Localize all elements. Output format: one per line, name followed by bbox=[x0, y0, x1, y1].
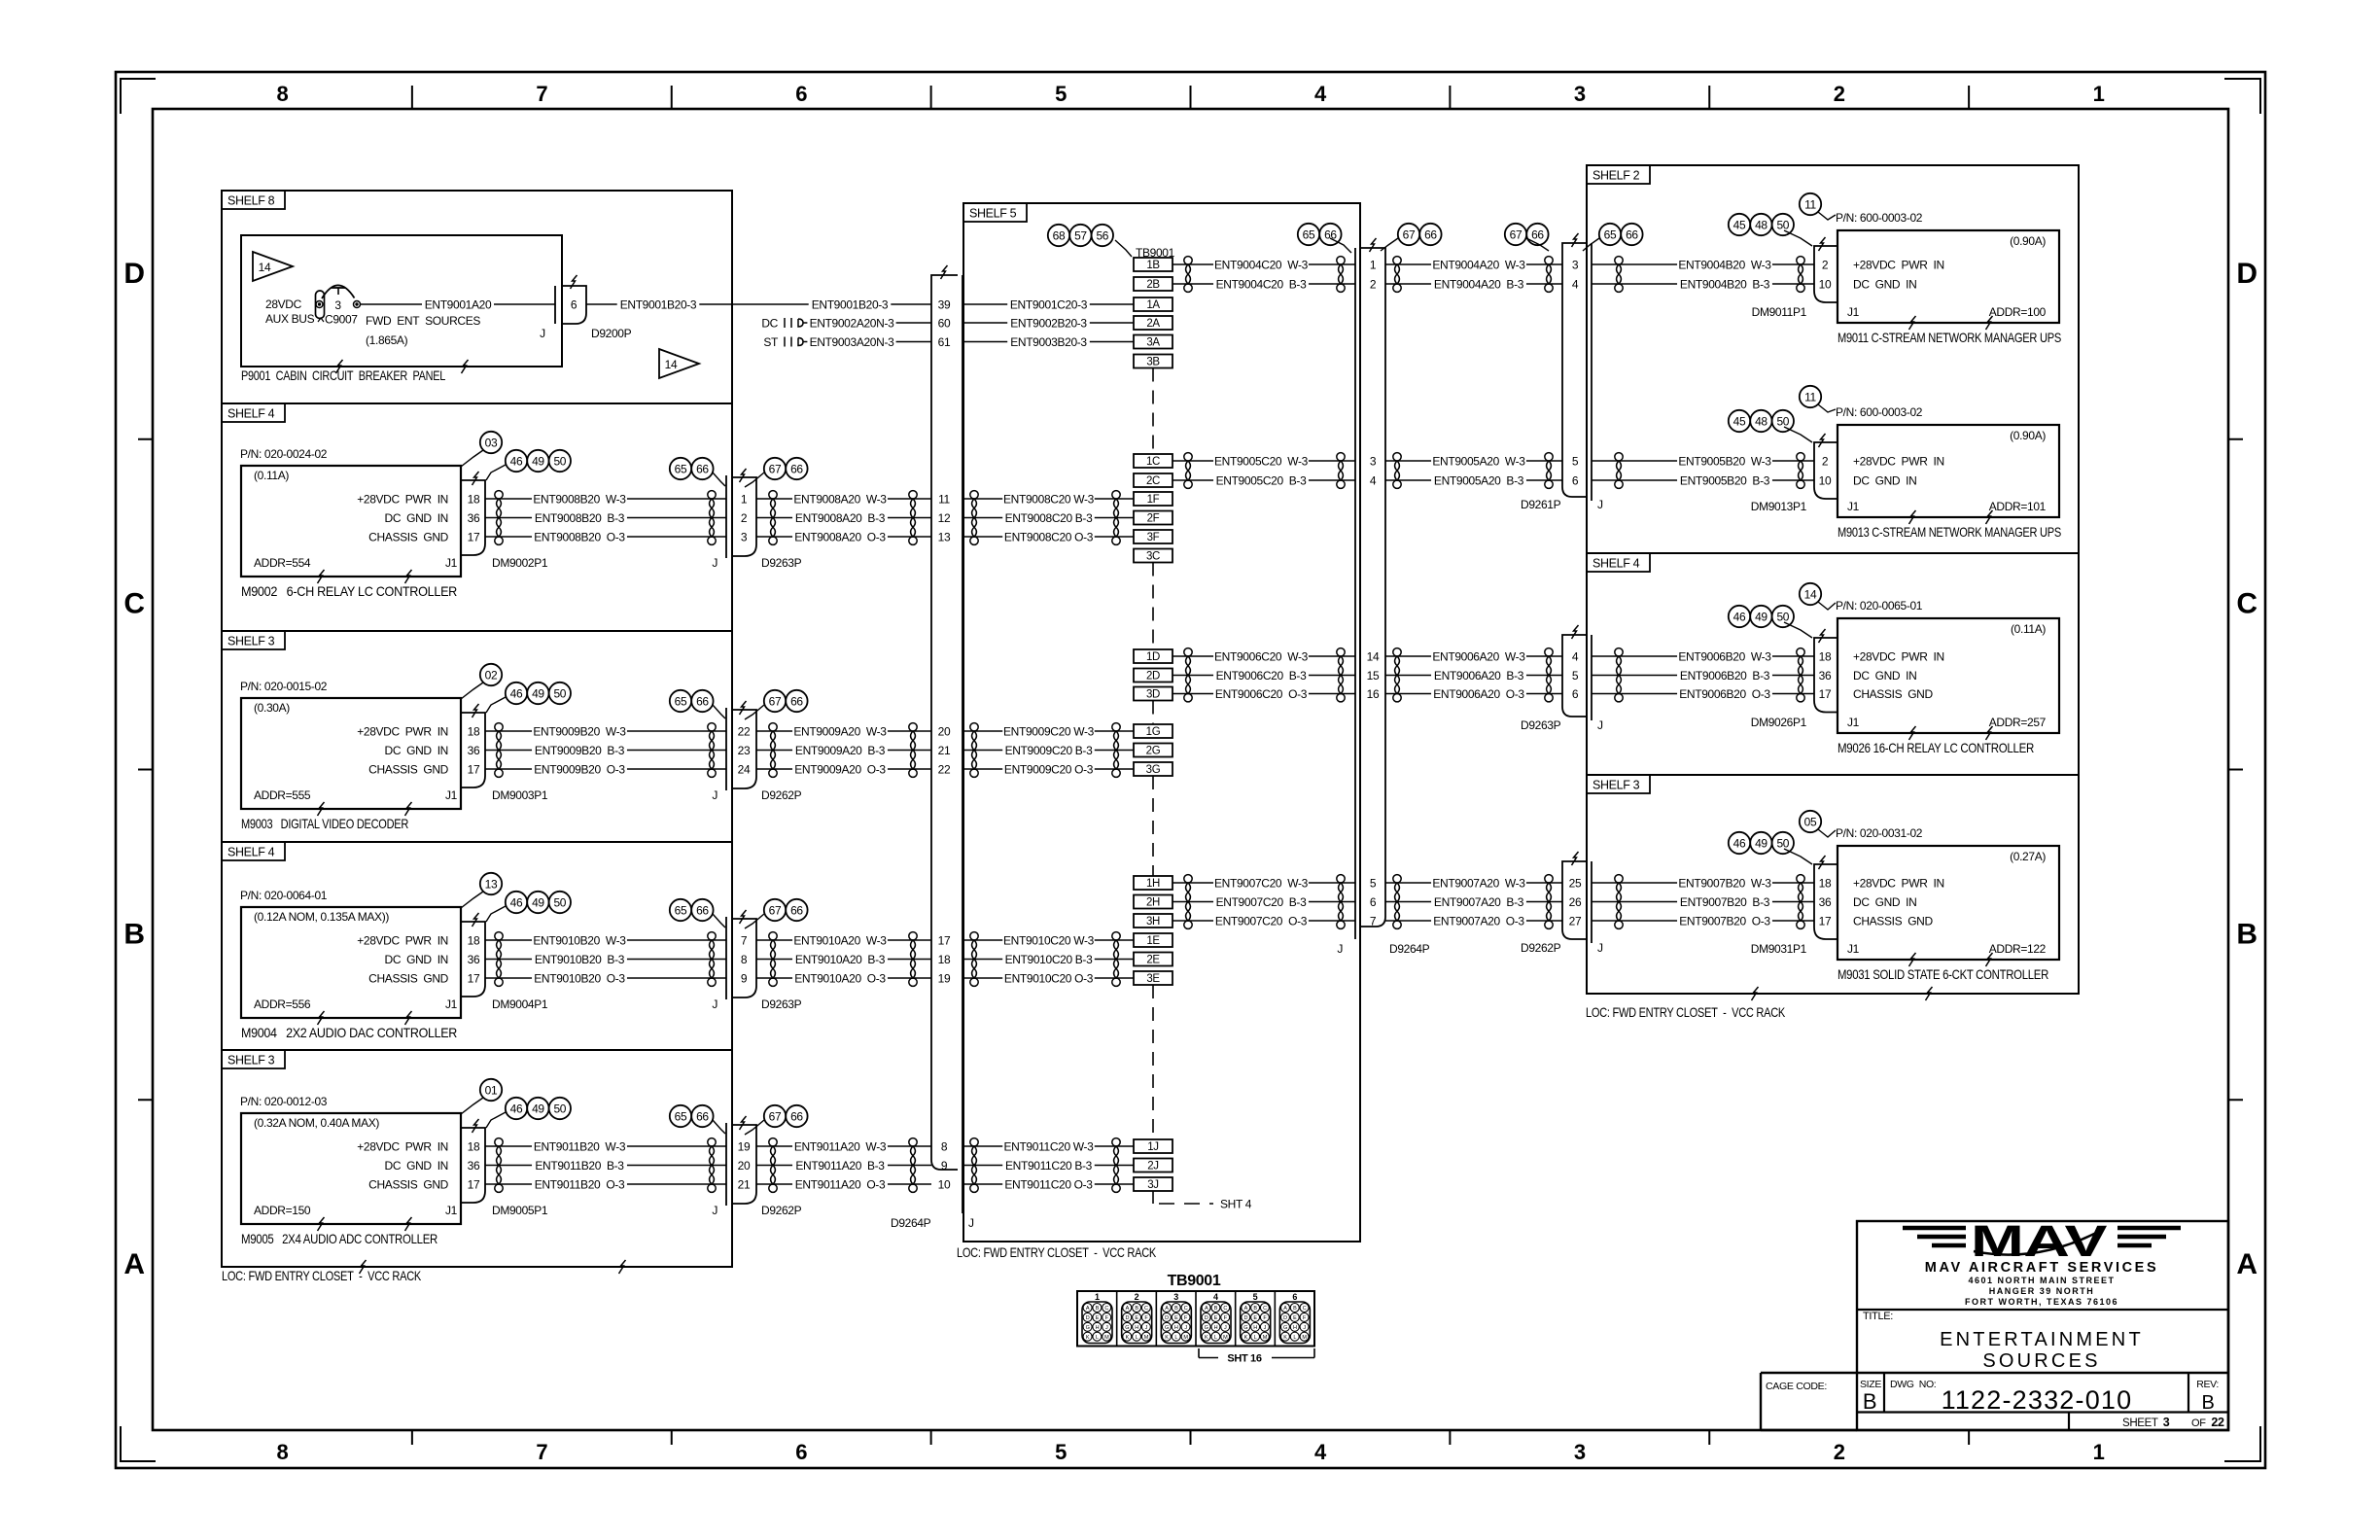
svg-text:11: 11 bbox=[1804, 197, 1816, 211]
svg-text:ADDR=150: ADDR=150 bbox=[254, 1204, 311, 1217]
svg-text:6: 6 bbox=[1370, 895, 1377, 909]
svg-text:39: 39 bbox=[938, 297, 951, 311]
svg-text:DM9005P1: DM9005P1 bbox=[492, 1204, 548, 1217]
svg-text:L: L bbox=[1096, 1335, 1099, 1341]
svg-text:67: 67 bbox=[1510, 227, 1522, 241]
twisted wires at terminal block bbox=[1112, 932, 1120, 987]
location note for shelf 5 rack bbox=[957, 1244, 1157, 1260]
svg-text:ENT9010A20 B-3: ENT9010A20 B-3 bbox=[795, 953, 886, 966]
svg-text:H: H bbox=[1214, 1325, 1218, 1331]
svg-text:17: 17 bbox=[938, 933, 951, 947]
svg-text:J: J bbox=[1597, 498, 1603, 511]
twisted wires inside right shelf bbox=[1615, 648, 1623, 702]
svg-text:8: 8 bbox=[941, 1139, 948, 1153]
svg-text:ENT9006B20 O-3: ENT9006B20 O-3 bbox=[1679, 687, 1770, 701]
svg-text:D: D bbox=[1165, 1315, 1169, 1321]
svg-text:61: 61 bbox=[938, 335, 951, 349]
svg-text:66: 66 bbox=[790, 694, 803, 708]
svg-text:ADDR=122: ADDR=122 bbox=[1989, 942, 2047, 956]
wire ENT9003B20-3 to terminal 3A bbox=[963, 334, 1134, 349]
svg-text:16: 16 bbox=[1367, 687, 1380, 701]
svg-text:2E: 2E bbox=[1146, 955, 1160, 966]
svg-text:ENT9001A20: ENT9001A20 bbox=[425, 297, 492, 311]
module M9013 box bbox=[1836, 405, 2061, 540]
svg-text:65: 65 bbox=[1303, 227, 1315, 241]
svg-text:66: 66 bbox=[696, 903, 709, 917]
shelf box SHELF 8 (P9001 cabin circuit breaker panel shelf) bbox=[222, 191, 732, 403]
svg-text:36: 36 bbox=[468, 511, 480, 525]
svg-text:2F: 2F bbox=[1147, 513, 1160, 525]
module M9026 box bbox=[1836, 599, 2059, 755]
svg-text:ENT9007B20 O-3: ENT9007B20 O-3 bbox=[1679, 914, 1770, 927]
svg-text:5: 5 bbox=[1055, 82, 1067, 106]
svg-text:2H: 2H bbox=[1146, 897, 1160, 909]
svg-text:3E: 3E bbox=[1146, 973, 1160, 985]
svg-text:03: 03 bbox=[485, 436, 498, 449]
svg-text:3D: 3D bbox=[1146, 689, 1160, 701]
svg-text:15: 15 bbox=[1367, 669, 1380, 682]
terminal blocks 1A/2A/3A/3B bbox=[1134, 297, 1172, 368]
wire ENT9010C20 W-3 to terminal 1E bbox=[963, 933, 1134, 948]
connector D9264P pins 14/15/16 bbox=[1367, 649, 1380, 701]
svg-text:1F: 1F bbox=[1147, 494, 1160, 506]
svg-text:A: A bbox=[2236, 1248, 2257, 1280]
svg-text:ENT9006C20 W-3: ENT9006C20 W-3 bbox=[1214, 649, 1309, 663]
connector D9262P plug (pins 25/26/27) bbox=[1521, 852, 1603, 955]
svg-text:49: 49 bbox=[1755, 610, 1767, 623]
svg-text:L: L bbox=[1174, 1335, 1177, 1341]
svg-text:SHELF 4: SHELF 4 bbox=[1592, 557, 1640, 571]
wire ENT9008A20 O-3 bbox=[756, 530, 931, 544]
svg-text:26: 26 bbox=[1569, 895, 1582, 909]
svg-text:5: 5 bbox=[1253, 1292, 1258, 1302]
svg-text:65: 65 bbox=[675, 462, 687, 475]
svg-text:ENT9001B20-3: ENT9001B20-3 bbox=[812, 297, 889, 311]
svg-text:ENT9006B20 W-3: ENT9006B20 W-3 bbox=[1678, 649, 1771, 663]
svg-text:36: 36 bbox=[468, 953, 480, 966]
svg-text:4601 NORTH MAIN STREET: 4601 NORTH MAIN STREET bbox=[1968, 1276, 2115, 1285]
svg-text:C: C bbox=[1104, 1306, 1108, 1312]
svg-text:19: 19 bbox=[738, 1139, 751, 1153]
circuit breaker C9007 3A bbox=[316, 285, 361, 326]
svg-text:+28VDC PWR IN: +28VDC PWR IN bbox=[1853, 454, 1944, 468]
svg-text:D9263P: D9263P bbox=[761, 556, 802, 570]
svg-text:10: 10 bbox=[938, 1177, 951, 1191]
wire ENT9011A20 B-3 bbox=[756, 1158, 931, 1172]
terminal blocks 1D/2D/3D bbox=[1134, 649, 1172, 701]
svg-text:DC GND IN: DC GND IN bbox=[1853, 277, 1916, 291]
svg-text:4: 4 bbox=[1572, 277, 1579, 291]
svg-text:18: 18 bbox=[938, 953, 951, 966]
svg-text:ADDR=257: ADDR=257 bbox=[1989, 716, 2047, 729]
wire ENT9010B20 O-3 bbox=[485, 971, 726, 986]
svg-text:ENT9009C20 B-3: ENT9009C20 B-3 bbox=[1005, 744, 1093, 757]
svg-text:ENT9001C20-3: ENT9001C20-3 bbox=[1010, 297, 1088, 311]
svg-text:ENT9008B20 O-3: ENT9008B20 O-3 bbox=[534, 530, 625, 543]
svg-text:19: 19 bbox=[938, 971, 951, 985]
twisted wires after D9262P bbox=[769, 1138, 777, 1193]
svg-text:ENT9002B20-3: ENT9002B20-3 bbox=[1010, 316, 1087, 330]
twisted wires after D9264P bbox=[1393, 648, 1401, 702]
wire ENT9006C20 W-3 bbox=[1172, 649, 1355, 664]
svg-text:ENT9005B20 W-3: ENT9005B20 W-3 bbox=[1678, 454, 1771, 468]
wire ENT9004B20 B-3 bbox=[1592, 277, 1814, 292]
svg-text:3: 3 bbox=[334, 298, 341, 312]
wire ENT9008B20 O-3 bbox=[485, 530, 726, 544]
svg-text:ENT9008C20 B-3: ENT9008C20 B-3 bbox=[1005, 511, 1093, 525]
svg-text:ENT9007B20 W-3: ENT9007B20 W-3 bbox=[1678, 876, 1771, 890]
sheet reference flag 14 (left) bbox=[253, 252, 293, 281]
svg-text:ENT9006A20 W-3: ENT9006A20 W-3 bbox=[1432, 649, 1525, 663]
connector DM9003P1 plug on M9003 J1 bbox=[461, 704, 548, 802]
svg-text:ENT9005A20 B-3: ENT9005A20 B-3 bbox=[1434, 473, 1524, 487]
svg-text:P/N: 020-0015-02: P/N: 020-0015-02 bbox=[240, 680, 328, 693]
svg-text:ENT9008A20 B-3: ENT9008A20 B-3 bbox=[795, 511, 886, 525]
location note for right rack bbox=[1586, 1004, 1786, 1020]
connector D9264P pins 1/2 bbox=[1370, 258, 1377, 291]
svg-text:17: 17 bbox=[1819, 914, 1832, 927]
svg-text:1E: 1E bbox=[1146, 935, 1160, 947]
svg-text:48: 48 bbox=[1755, 218, 1767, 231]
svg-text:2: 2 bbox=[1135, 1292, 1139, 1302]
svg-text:DWG NO:: DWG NO: bbox=[1890, 1379, 1936, 1390]
svg-text:18: 18 bbox=[1819, 649, 1832, 663]
svg-text:18: 18 bbox=[468, 1139, 480, 1153]
shelf box SHELF 2 (right) bbox=[1587, 165, 2079, 553]
svg-text:J1: J1 bbox=[445, 556, 458, 570]
shelf 5 connector pins 39/60/61 bbox=[938, 297, 951, 349]
wire ENT9008B20 B-3 bbox=[485, 510, 726, 525]
wire ENT9008C20 O-3 to terminal 3F bbox=[963, 530, 1134, 544]
twisted wires at shelf 5 connector bbox=[970, 1138, 978, 1193]
svg-text:7: 7 bbox=[536, 82, 547, 106]
wire ENT9009C20 B-3 to terminal 2G bbox=[963, 743, 1134, 757]
svg-text:5: 5 bbox=[1055, 1440, 1067, 1464]
terminal blocks 1C/2C bbox=[1134, 454, 1172, 487]
connector DM9005P1 plug on M9005 J1 bbox=[461, 1119, 548, 1217]
svg-text:ENT9008B20 W-3: ENT9008B20 W-3 bbox=[533, 492, 626, 506]
svg-text:B: B bbox=[2236, 918, 2257, 950]
terminal blocks 1E/2E/3E bbox=[1134, 933, 1172, 985]
twisted wires inside right shelf bbox=[1615, 257, 1623, 293]
svg-text:D: D bbox=[2236, 258, 2257, 290]
svg-text:J: J bbox=[540, 327, 545, 340]
svg-text:CHASSIS GND: CHASSIS GND bbox=[1853, 914, 1933, 927]
connector D9263P plug (pins 4/5/6) bbox=[1521, 625, 1603, 732]
terminal blocks 1H/2H/3H bbox=[1134, 876, 1172, 927]
connector D9264P tall plug right of shelf 5 bbox=[1337, 238, 1429, 956]
svg-text:P/N: 600-0003-02: P/N: 600-0003-02 bbox=[1836, 211, 1923, 225]
svg-text:CHASSIS GND: CHASSIS GND bbox=[368, 762, 448, 776]
svg-text:G: G bbox=[1205, 1325, 1208, 1331]
svg-text:ENT9009C20 O-3: ENT9009C20 O-3 bbox=[1004, 762, 1094, 776]
module M9031 box bbox=[1836, 826, 2059, 982]
wire ENT9007A20 B-3 bbox=[1385, 894, 1562, 909]
svg-text:65: 65 bbox=[675, 903, 687, 917]
wire callouts 67 66 left of D9261P bbox=[1505, 224, 1549, 251]
svg-text:ENT9004C20 W-3: ENT9004C20 W-3 bbox=[1214, 258, 1309, 271]
terminal blocks 1J/2J/3J bbox=[1134, 1139, 1172, 1191]
svg-text:P/N: 020-0012-03: P/N: 020-0012-03 bbox=[240, 1095, 328, 1108]
svg-text:CHASSIS GND: CHASSIS GND bbox=[368, 1177, 448, 1191]
twisted wires before shelf 5 connector bbox=[909, 932, 917, 987]
svg-text:1B: 1B bbox=[1146, 260, 1160, 271]
wire ENT9005A20 B-3 bbox=[1385, 473, 1562, 488]
twisted wires at shelf 5 connector bbox=[970, 491, 978, 545]
svg-text:1A: 1A bbox=[1146, 299, 1160, 311]
svg-text:7: 7 bbox=[536, 1440, 547, 1464]
wire ENT9006C20 B-3 bbox=[1172, 668, 1355, 682]
svg-text:56: 56 bbox=[1096, 228, 1108, 242]
shelf box SHELF 4 for M9002 bbox=[222, 403, 732, 631]
svg-text:SHELF 4: SHELF 4 bbox=[227, 407, 275, 421]
svg-text:P/N: 020-0024-02: P/N: 020-0024-02 bbox=[240, 447, 328, 461]
svg-text:CHASSIS GND: CHASSIS GND bbox=[1853, 687, 1933, 701]
company name and address bbox=[1925, 1260, 2158, 1307]
wire callouts 65 66 for M9002 bbox=[670, 458, 725, 486]
svg-text:J: J bbox=[712, 788, 717, 802]
twisted wires after D9263P bbox=[769, 491, 777, 545]
svg-text:D9262P: D9262P bbox=[761, 1204, 802, 1217]
svg-text:14: 14 bbox=[1367, 649, 1380, 663]
svg-text:8: 8 bbox=[741, 953, 748, 966]
wire callouts 65 66 right of D9261P bbox=[1583, 224, 1643, 251]
svg-text:C: C bbox=[1263, 1306, 1267, 1312]
svg-text:1: 1 bbox=[741, 492, 748, 506]
shelf box SHELF 4 for M9004 bbox=[222, 842, 732, 1050]
svg-text:ENT9011B20 O-3: ENT9011B20 O-3 bbox=[535, 1177, 625, 1191]
svg-text:D9264P: D9264P bbox=[891, 1216, 931, 1230]
wire ENT9007A20 O-3 bbox=[1385, 914, 1562, 928]
svg-text:J1: J1 bbox=[445, 997, 458, 1011]
svg-text:1: 1 bbox=[1095, 1292, 1100, 1302]
svg-text:2: 2 bbox=[1822, 454, 1829, 468]
svg-text:14: 14 bbox=[1804, 587, 1817, 601]
twisted wires inside right shelf bbox=[1615, 875, 1623, 929]
svg-text:1C: 1C bbox=[1146, 456, 1160, 468]
svg-text:11: 11 bbox=[938, 492, 950, 506]
svg-text:ENT9009A20 B-3: ENT9009A20 B-3 bbox=[795, 744, 886, 757]
svg-text:D9262P: D9262P bbox=[1521, 941, 1561, 955]
svg-text:10: 10 bbox=[1819, 473, 1832, 487]
svg-text:J1: J1 bbox=[1847, 716, 1860, 729]
twisted wires before D9264P bbox=[1337, 453, 1345, 489]
svg-text:05: 05 bbox=[1804, 815, 1817, 828]
svg-text:ST: ST bbox=[763, 335, 779, 349]
twisted wires before D9262P bbox=[1545, 875, 1553, 929]
wire ENT9010A20 O-3 bbox=[756, 971, 931, 986]
svg-text:ENT9003B20-3: ENT9003B20-3 bbox=[1010, 335, 1087, 349]
svg-text:36: 36 bbox=[1819, 895, 1832, 909]
svg-text:65: 65 bbox=[1604, 227, 1617, 241]
svg-text:8: 8 bbox=[276, 82, 288, 106]
svg-text:J1: J1 bbox=[1847, 942, 1860, 956]
title block fields bbox=[1766, 1379, 2224, 1429]
svg-text:D: D bbox=[1205, 1315, 1208, 1321]
svg-text:4: 4 bbox=[1314, 1440, 1327, 1464]
connector D9261P plug (pins 3/4/5/6) bbox=[1521, 233, 1603, 511]
connector DM9013P1 plug on M9013 J1 bbox=[1751, 434, 1837, 513]
svg-text:M9031 SOLID STATE 6-CKT CONTRO: M9031 SOLID STATE 6-CKT CONTROLLER bbox=[1837, 966, 2048, 982]
svg-text:CAGE CODE:: CAGE CODE: bbox=[1766, 1381, 1827, 1392]
svg-text:1: 1 bbox=[2093, 82, 2105, 106]
svg-text:ENT9009B20 B-3: ENT9009B20 B-3 bbox=[535, 744, 625, 757]
svg-text:ENT9004B20 W-3: ENT9004B20 W-3 bbox=[1678, 258, 1771, 271]
twisted wires before D9264P bbox=[1337, 257, 1345, 293]
svg-text:P/N: 020-0031-02: P/N: 020-0031-02 bbox=[1836, 826, 1923, 840]
svg-text:ENT9004A20 W-3: ENT9004A20 W-3 bbox=[1432, 258, 1525, 271]
connector DM9031P1 plug on M9031 J1 bbox=[1751, 856, 1837, 956]
svg-text:5: 5 bbox=[1572, 669, 1579, 682]
svg-text:66: 66 bbox=[1531, 227, 1544, 241]
svg-text:50: 50 bbox=[553, 454, 566, 468]
terminal block TB9001 physical layout bbox=[1077, 1273, 1314, 1347]
svg-text:M9003 DIGITAL VIDEO DECODER: M9003 DIGITAL VIDEO DECODER bbox=[241, 816, 408, 831]
svg-text:ENT9002A20N-3: ENT9002A20N-3 bbox=[810, 316, 895, 330]
svg-text:+28VDC PWR IN: +28VDC PWR IN bbox=[357, 492, 448, 506]
wire ENT9011B20 W-3 bbox=[485, 1139, 726, 1154]
svg-text:1: 1 bbox=[1370, 258, 1377, 271]
svg-text:SHELF 4: SHELF 4 bbox=[227, 846, 275, 859]
svg-text:18: 18 bbox=[468, 933, 480, 947]
twisted wires before shelf 5 connector bbox=[909, 1138, 917, 1193]
svg-text:DC: DC bbox=[761, 316, 778, 330]
svg-text:6: 6 bbox=[571, 298, 577, 312]
svg-text:20: 20 bbox=[938, 724, 951, 738]
svg-text:50: 50 bbox=[553, 895, 566, 909]
svg-text:2: 2 bbox=[1834, 1440, 1845, 1464]
shelf 5 connector pins 8/9/10 bbox=[938, 1139, 951, 1191]
svg-text:4: 4 bbox=[1572, 649, 1579, 663]
svg-text:4: 4 bbox=[1370, 473, 1377, 487]
svg-text:FWD ENT SOURCES: FWD ENT SOURCES bbox=[366, 314, 480, 328]
shelf box SHELF 5 bbox=[963, 203, 1360, 1242]
wire ENT9005C20 W-3 bbox=[1172, 454, 1355, 469]
P9001 cabin circuit breaker panel box bbox=[241, 235, 562, 383]
wire ENT9011C20 B-3 to terminal 2J bbox=[963, 1158, 1134, 1172]
shelf box SHELF 4 (right) bbox=[1587, 553, 2079, 775]
wire ENT9009B20 O-3 bbox=[485, 762, 726, 777]
wire ENT9004A20 W-3 bbox=[1385, 258, 1562, 272]
svg-text:J1: J1 bbox=[445, 788, 458, 802]
svg-text:3: 3 bbox=[741, 530, 748, 543]
svg-text:2: 2 bbox=[741, 511, 748, 525]
svg-text:3G: 3G bbox=[1146, 764, 1161, 776]
twisted wires at terminal block bbox=[1112, 723, 1120, 778]
svg-text:ENT9008A20 W-3: ENT9008A20 W-3 bbox=[793, 492, 887, 506]
svg-text:1: 1 bbox=[2093, 1440, 2105, 1464]
svg-text:SHELF 5: SHELF 5 bbox=[969, 207, 1017, 221]
svg-text:ENT9004A20 B-3: ENT9004A20 B-3 bbox=[1434, 277, 1524, 291]
svg-text:CHASSIS GND: CHASSIS GND bbox=[368, 971, 448, 985]
connector D9200P plug (pin 6) bbox=[540, 275, 631, 340]
svg-text:(0.11A): (0.11A) bbox=[254, 469, 289, 482]
svg-text:(0.11A): (0.11A) bbox=[2011, 622, 2046, 636]
svg-text:FORT WORTH, TEXAS 76106: FORT WORTH, TEXAS 76106 bbox=[1965, 1297, 2118, 1307]
svg-text:25: 25 bbox=[1569, 876, 1582, 890]
sheet reference flag 14 (right of D9200P) bbox=[659, 349, 699, 378]
svg-text:3: 3 bbox=[1173, 1292, 1178, 1302]
wire callouts 67 66 right of D9264P bbox=[1381, 224, 1442, 251]
svg-text:49: 49 bbox=[1755, 836, 1767, 850]
svg-text:18: 18 bbox=[1819, 876, 1832, 890]
twisted wires after DM9002P1 bbox=[495, 491, 503, 545]
company logo MAV bbox=[1903, 1216, 2181, 1266]
terminal blocks 1G/2G/3G bbox=[1134, 724, 1172, 776]
twisted wires after DM9004P1 bbox=[495, 932, 503, 987]
svg-text:7: 7 bbox=[1370, 914, 1377, 927]
connector D9262P pins 25/26/27 bbox=[1569, 876, 1582, 927]
svg-text:J: J bbox=[712, 997, 717, 1011]
svg-text:G: G bbox=[1086, 1325, 1090, 1331]
svg-text:(0.32A NOM, 0.40A MAX): (0.32A NOM, 0.40A MAX) bbox=[254, 1116, 379, 1130]
svg-text:36: 36 bbox=[468, 744, 480, 757]
twisted wires at shelf 5 connector bbox=[970, 723, 978, 778]
connector D9264P pins 5/6/7 bbox=[1370, 876, 1377, 927]
svg-text:14: 14 bbox=[665, 358, 678, 371]
svg-text:ENT9007A20 O-3: ENT9007A20 O-3 bbox=[1433, 914, 1524, 927]
sheet callout circle 03 for M9002 bbox=[461, 432, 502, 467]
wire callouts 67 66 for M9004 bbox=[745, 899, 808, 928]
svg-text:18: 18 bbox=[468, 724, 480, 738]
wire callouts 67 66 for M9005 bbox=[745, 1105, 808, 1135]
twisted wires after terminal block bbox=[1184, 257, 1192, 293]
svg-text:C9007: C9007 bbox=[325, 313, 358, 327]
svg-text:ENT9007B20 B-3: ENT9007B20 B-3 bbox=[1680, 895, 1770, 909]
svg-text:ENT9007C20 B-3: ENT9007C20 B-3 bbox=[1216, 895, 1307, 909]
svg-text:5: 5 bbox=[1572, 454, 1579, 468]
svg-text:ENT9011A20 W-3: ENT9011A20 W-3 bbox=[794, 1139, 887, 1153]
shelf box SHELF 3 (right) bbox=[1587, 775, 2079, 1000]
svg-text:SHELF 3: SHELF 3 bbox=[227, 1054, 275, 1067]
svg-text:66: 66 bbox=[1324, 227, 1337, 241]
svg-text:CHASSIS GND: CHASSIS GND bbox=[368, 530, 448, 543]
svg-text:6: 6 bbox=[1572, 473, 1579, 487]
svg-text:2C: 2C bbox=[1146, 475, 1160, 487]
svg-text:DM9002P1: DM9002P1 bbox=[492, 556, 548, 570]
svg-text:9: 9 bbox=[741, 971, 748, 985]
svg-text:D9263P: D9263P bbox=[761, 997, 802, 1011]
svg-text:50: 50 bbox=[553, 686, 566, 700]
svg-text:J1: J1 bbox=[1847, 500, 1860, 513]
svg-text:+28VDC PWR IN: +28VDC PWR IN bbox=[1853, 649, 1944, 663]
svg-text:DM9003P1: DM9003P1 bbox=[492, 788, 548, 802]
terminal block TB9001 label bbox=[1136, 246, 1175, 260]
wire ENT9009A20 O-3 bbox=[756, 762, 931, 777]
svg-text:21: 21 bbox=[938, 744, 951, 757]
svg-text:2: 2 bbox=[1834, 82, 1845, 106]
svg-text:46: 46 bbox=[510, 895, 523, 909]
svg-text:45: 45 bbox=[1733, 414, 1746, 428]
twisted wires before D9264P bbox=[1337, 875, 1345, 929]
svg-text:(0.90A): (0.90A) bbox=[2010, 234, 2046, 248]
wire ENT9010B20 W-3 bbox=[485, 933, 726, 948]
svg-text:50: 50 bbox=[1776, 414, 1789, 428]
svg-text:6: 6 bbox=[1572, 687, 1579, 701]
terminal block column dashed continuation lines bbox=[1153, 368, 1252, 1211]
svg-text:B: B bbox=[2202, 1392, 2215, 1414]
svg-text:ENT9004B20 B-3: ENT9004B20 B-3 bbox=[1680, 277, 1770, 291]
svg-text:ENT9006C20 B-3: ENT9006C20 B-3 bbox=[1216, 669, 1307, 682]
svg-text:21: 21 bbox=[738, 1177, 751, 1191]
module M9011 box bbox=[1836, 211, 2061, 345]
terminal blocks 1B/2B bbox=[1134, 258, 1172, 291]
svg-text:46: 46 bbox=[1733, 836, 1746, 850]
svg-text:22: 22 bbox=[738, 724, 751, 738]
svg-text:G: G bbox=[1243, 1325, 1247, 1331]
wire callouts 45 48 50 for M9013 bbox=[1729, 410, 1812, 442]
wire ENT9007B20 O-3 bbox=[1592, 914, 1814, 928]
